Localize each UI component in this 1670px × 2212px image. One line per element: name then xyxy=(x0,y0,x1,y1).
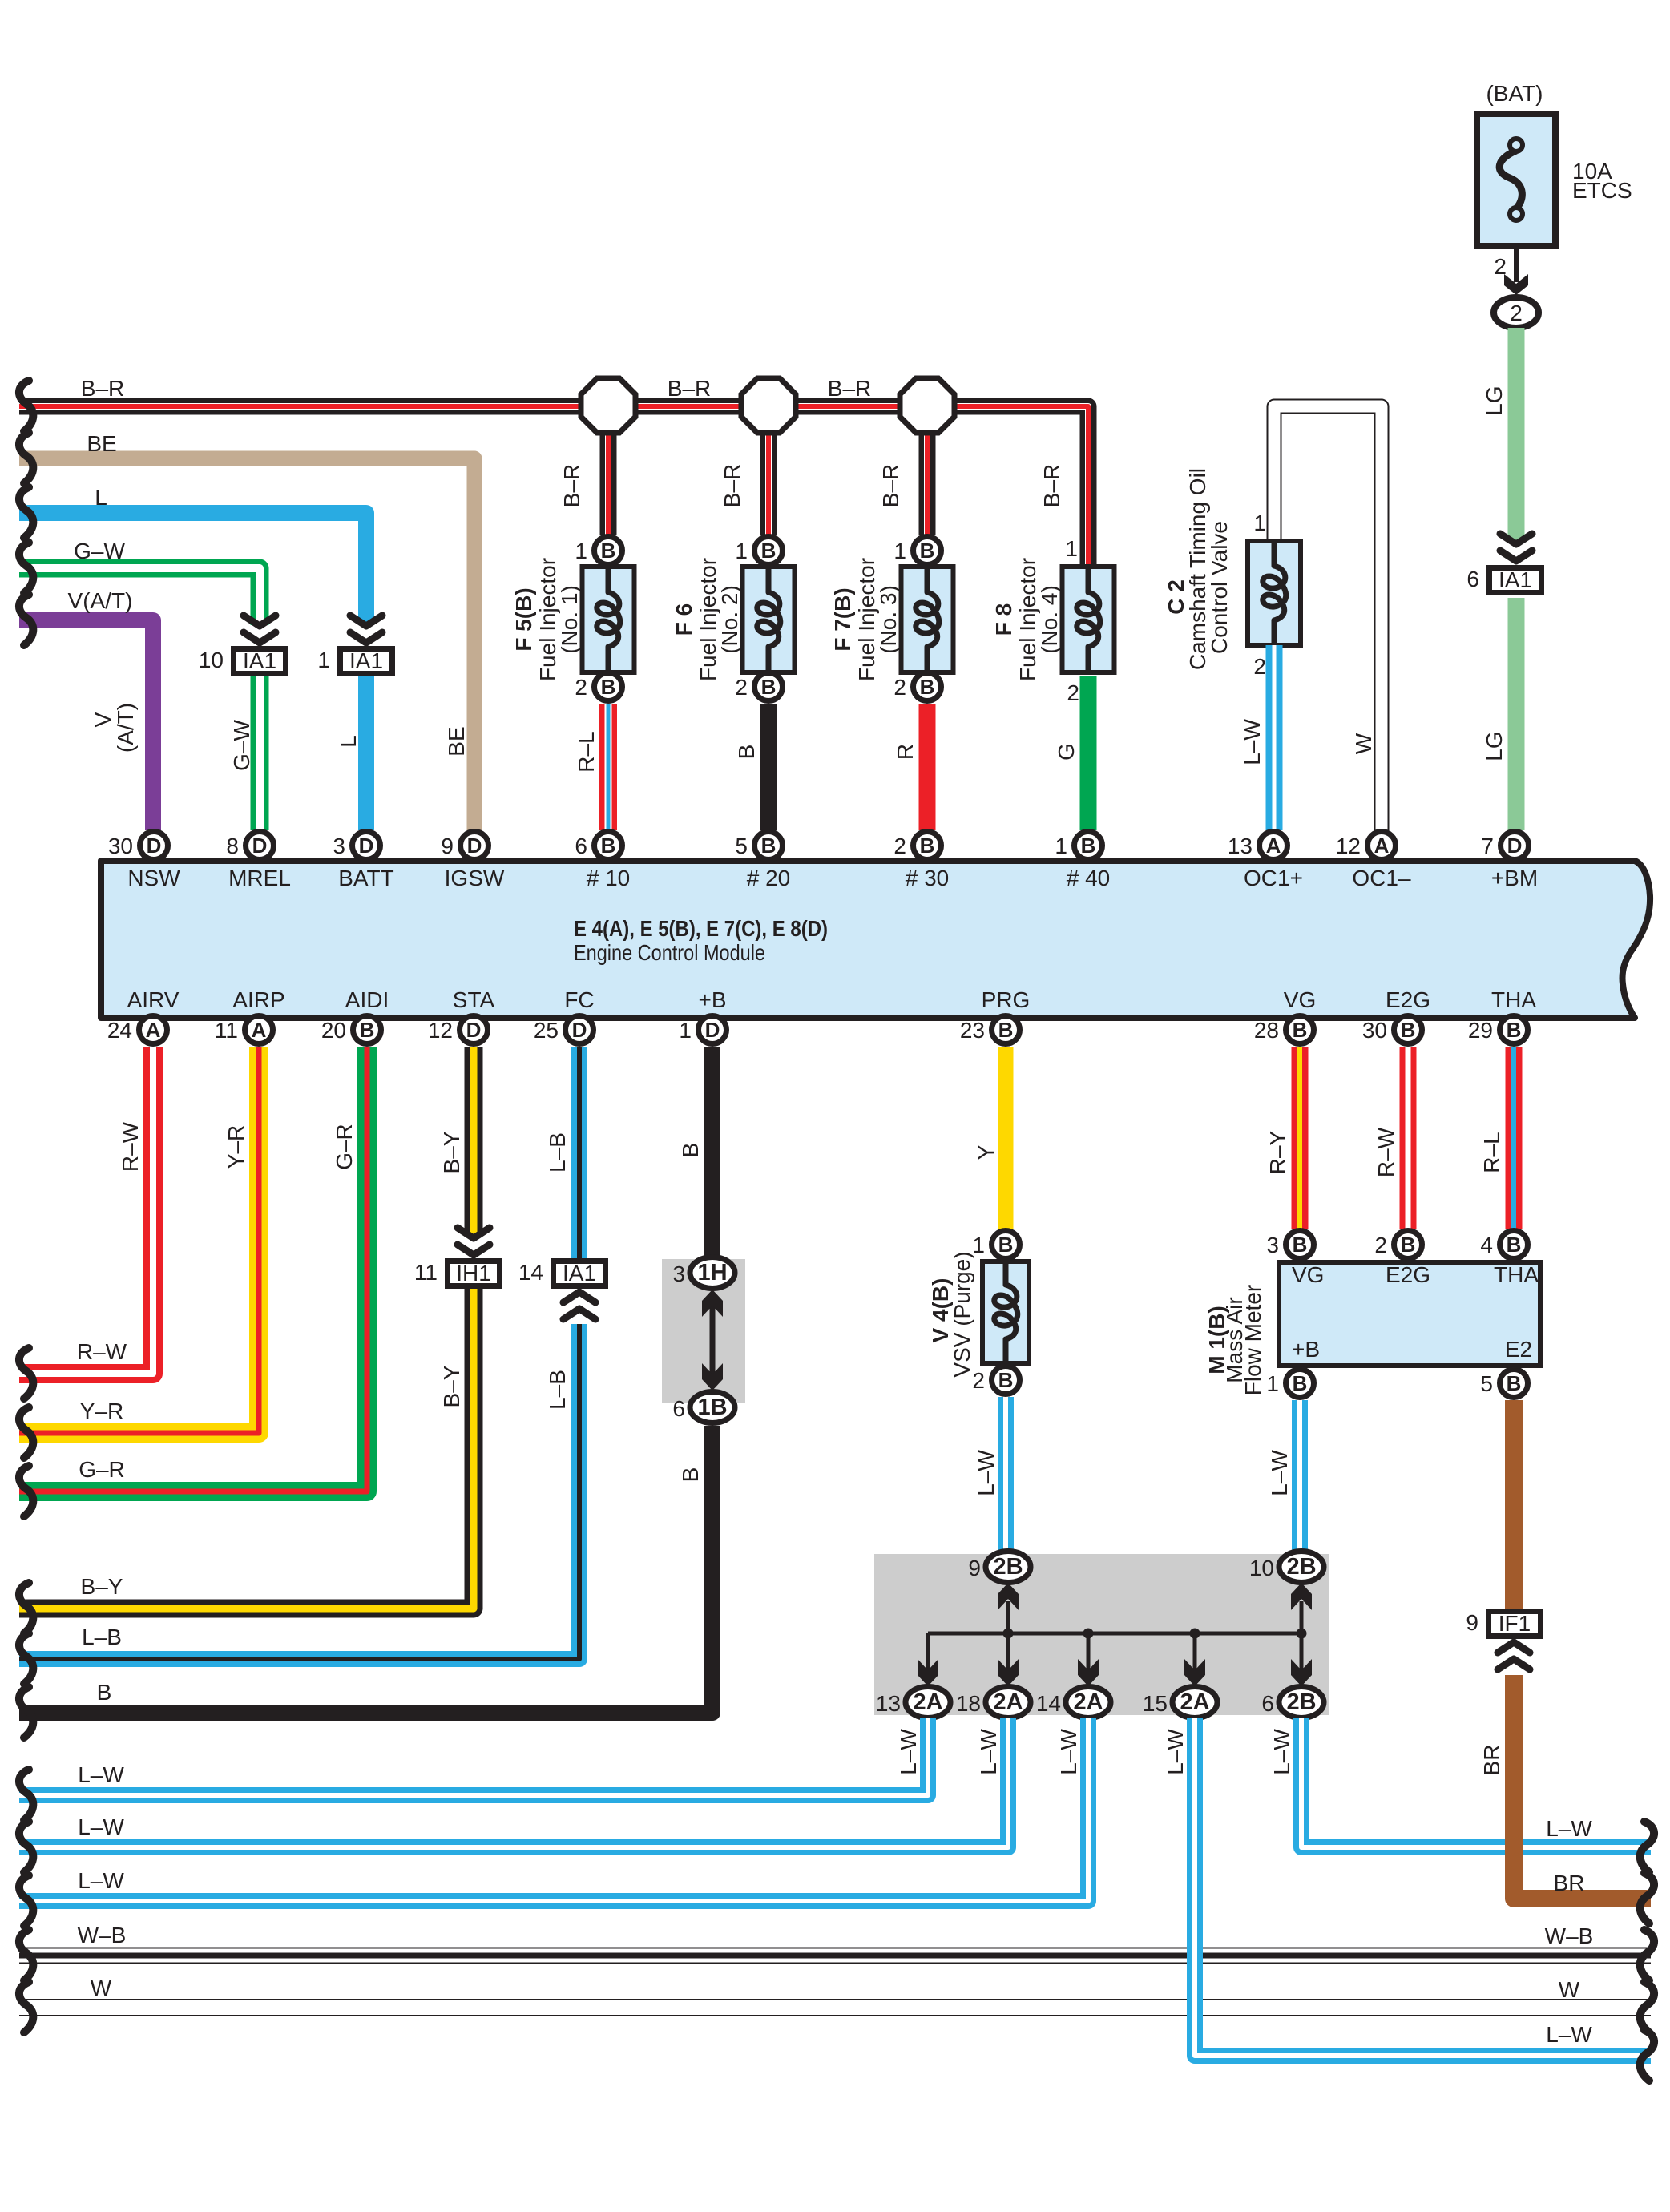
squiggle R-W left xyxy=(19,1348,33,1399)
wire LG from fuse to +BM xyxy=(1482,328,1516,830)
svg-text:F 7(B): F 7(B) xyxy=(830,587,855,651)
svg-text:A: A xyxy=(146,1018,161,1042)
svg-text:B: B xyxy=(920,834,935,858)
svg-text:7: 7 xyxy=(1481,834,1494,858)
svg-text:B: B xyxy=(998,1368,1014,1392)
wire B-Y STA to left xyxy=(19,1047,474,1609)
svg-text:D: D xyxy=(252,834,268,858)
svg-text:B: B xyxy=(761,539,777,563)
svg-text:15: 15 xyxy=(1143,1691,1168,1716)
svg-text:B: B xyxy=(678,1467,703,1483)
svg-text:V: V xyxy=(91,712,115,727)
squiggle G-W left xyxy=(19,543,33,593)
pin 3 B MAF xyxy=(1266,1231,1313,1259)
svg-text:R–W: R–W xyxy=(77,1339,127,1364)
svg-text:NSW: NSW xyxy=(127,866,180,890)
ECM pin 7 D +BM xyxy=(1481,832,1528,860)
ECM pin 12 D STA xyxy=(428,1016,488,1044)
svg-text:1H: 1H xyxy=(697,1260,727,1286)
ECM pin 9 D IGSW xyxy=(441,832,488,860)
svg-text:2B: 2B xyxy=(1286,1554,1316,1580)
connector oval 14 2A xyxy=(1036,1687,1111,1718)
svg-text:R: R xyxy=(893,744,918,760)
svg-text:G–W: G–W xyxy=(74,539,125,563)
pin 2 B MAF xyxy=(1374,1231,1422,1259)
squiggle L-W bottom right xyxy=(1640,2030,1654,2081)
squiggle B-Y left xyxy=(19,1583,33,1633)
arrow chevron up below 14 IA1 xyxy=(563,1292,595,1319)
squiggle L-W right xyxy=(1640,1822,1654,1872)
svg-text:2: 2 xyxy=(575,675,587,700)
svg-text:BE: BE xyxy=(444,726,469,756)
svg-text:6: 6 xyxy=(1466,567,1479,591)
svg-text:D: D xyxy=(147,834,162,858)
svg-text:Y–R: Y–R xyxy=(80,1399,123,1423)
wire L-W MAF +B to 2B xyxy=(1267,1400,1300,1552)
ECM pin 3 D BATT xyxy=(333,832,380,860)
svg-text:12: 12 xyxy=(1336,834,1361,858)
svg-text:(No. 1): (No. 1) xyxy=(557,585,582,654)
svg-text:R–L: R–L xyxy=(1479,1132,1504,1173)
svg-text:3: 3 xyxy=(1266,1233,1279,1257)
svg-text:L–W: L–W xyxy=(1546,1816,1592,1841)
svg-text:2: 2 xyxy=(1374,1233,1387,1257)
svg-text:W–B: W–B xyxy=(78,1923,127,1948)
svg-text:1: 1 xyxy=(893,539,906,563)
svg-text:2: 2 xyxy=(1253,654,1266,679)
svg-text:B: B xyxy=(1507,1371,1522,1395)
ECM pin 20 B AIDI xyxy=(321,1016,381,1044)
svg-text:9: 9 xyxy=(441,834,454,858)
svg-text:E 4(A), E 5(B), E 7(C), E 8(D): E 4(A), E 5(B), E 7(C), E 8(D) xyxy=(574,916,828,941)
wire B-R drop to injector 1 xyxy=(559,420,608,535)
svg-text:L–W: L–W xyxy=(1269,1729,1294,1775)
connector oval 6 1B xyxy=(672,1392,735,1423)
svg-text:8: 8 xyxy=(226,834,239,858)
wire BR MAF E2 to right xyxy=(1479,1400,1651,1899)
svg-text:3: 3 xyxy=(333,834,345,858)
squiggle W-B left xyxy=(19,1930,33,1980)
ECM pin 12 A OC1- xyxy=(1336,832,1396,860)
svg-text:2: 2 xyxy=(1067,680,1079,705)
svg-text:L–W: L–W xyxy=(974,1450,998,1496)
ECM pin 28 B VG xyxy=(1254,1016,1314,1044)
wire G-W xyxy=(19,539,260,830)
svg-text:B: B xyxy=(1293,1371,1308,1395)
svg-text:R–L: R–L xyxy=(574,731,599,772)
ECM pin 1 B #40 xyxy=(1055,832,1102,860)
wire L xyxy=(19,485,366,830)
junction arrow up into 10 2B xyxy=(1291,1583,1312,1610)
connector 9 IF1 xyxy=(1466,1610,1540,1637)
svg-text:2: 2 xyxy=(735,675,748,700)
svg-text:6: 6 xyxy=(1261,1691,1274,1716)
svg-text:4: 4 xyxy=(1480,1233,1493,1257)
svg-text:30: 30 xyxy=(108,834,133,858)
squiggle B left xyxy=(19,1687,33,1738)
wire B +B to left xyxy=(19,1047,712,1713)
svg-text:B–R: B–R xyxy=(81,376,124,401)
svg-text:R–Y: R–Y xyxy=(1265,1130,1290,1174)
svg-text:AIDI: AIDI xyxy=(345,987,389,1012)
svg-text:(BAT): (BAT) xyxy=(1486,81,1543,106)
svg-text:B: B xyxy=(601,539,616,563)
wire W bus xyxy=(19,1976,1651,2008)
svg-text:IA1: IA1 xyxy=(563,1261,596,1286)
svg-text:F 5(B): F 5(B) xyxy=(511,587,536,651)
svg-text:D: D xyxy=(572,1018,587,1042)
svg-text:2: 2 xyxy=(893,834,906,858)
svg-text:2A: 2A xyxy=(1073,1689,1103,1715)
pin 1 B MAF xyxy=(1266,1370,1313,1398)
squiggle V left xyxy=(19,595,33,645)
svg-text:B: B xyxy=(1507,1233,1522,1257)
svg-text:G–R: G–R xyxy=(332,1124,357,1170)
svg-text:IA1: IA1 xyxy=(1499,567,1532,592)
connector 10 IA1 xyxy=(199,648,286,674)
svg-text:B: B xyxy=(920,675,935,699)
connector oval 13 2A xyxy=(876,1687,950,1718)
svg-text:(No. 4): (No. 4) xyxy=(1037,585,1062,654)
svg-text:29: 29 xyxy=(1468,1018,1493,1043)
ECM pin 2 B #30 xyxy=(893,832,941,860)
svg-text:L–W: L–W xyxy=(1056,1729,1081,1775)
svg-text:Y–R: Y–R xyxy=(224,1125,248,1169)
ECM pin 23 B PRG xyxy=(960,1016,1020,1044)
pin 2 B injector 1 xyxy=(575,673,622,701)
svg-text:L–W: L–W xyxy=(1240,719,1265,765)
svg-text:W: W xyxy=(91,1976,112,2000)
svg-text:L–B: L–B xyxy=(82,1625,122,1649)
shield grey junction box xyxy=(874,1554,1329,1715)
svg-text:G–R: G–R xyxy=(79,1457,125,1482)
wire R injector 3 to ECM xyxy=(893,704,927,830)
svg-text:Engine Control Module: Engine Control Module xyxy=(574,940,765,965)
svg-text:B–R: B–R xyxy=(878,464,903,507)
svg-text:6: 6 xyxy=(575,834,587,858)
svg-text:E2G: E2G xyxy=(1386,987,1430,1012)
svg-text:9: 9 xyxy=(968,1556,981,1580)
ECM pin 13 A OC1+ xyxy=(1228,832,1288,860)
wire L-B FC to left xyxy=(19,1047,579,1659)
svg-text:BR: BR xyxy=(1479,1745,1504,1776)
svg-text:MREL: MREL xyxy=(228,866,291,890)
svg-text:B: B xyxy=(1401,1018,1416,1042)
svg-text:28: 28 xyxy=(1254,1018,1279,1043)
wire G-R AIDI to left xyxy=(19,1047,367,1491)
svg-text:1: 1 xyxy=(1266,1371,1279,1396)
svg-text:1: 1 xyxy=(972,1233,985,1257)
wire W loop C2 pin 1 to OC1- xyxy=(1253,406,1382,830)
svg-text:L–W: L–W xyxy=(896,1729,921,1775)
fuel injector F 8 No.4 xyxy=(991,558,1115,681)
svg-text:L–B: L–B xyxy=(545,1132,570,1173)
wire L-W 18 2A to left xyxy=(19,1718,1008,1847)
connector oval 10 2B xyxy=(1249,1552,1324,1583)
pin 4 B MAF xyxy=(1480,1231,1527,1259)
svg-text:2A: 2A xyxy=(913,1689,942,1715)
ECM pin 25 D FC xyxy=(534,1016,594,1044)
svg-text:VG: VG xyxy=(1292,1262,1324,1287)
svg-text:25: 25 xyxy=(534,1018,559,1043)
junction bus line xyxy=(928,1601,1307,1672)
svg-text:(A/T): (A/T) xyxy=(113,703,138,753)
svg-text:VG: VG xyxy=(1284,987,1316,1012)
squiggle W left xyxy=(19,1982,33,2032)
svg-text:B: B xyxy=(761,834,777,858)
wire G injector 4 to ECM xyxy=(1054,676,1088,830)
svg-text:B–R: B–R xyxy=(1039,464,1064,507)
connector oval 9 2B xyxy=(968,1552,1031,1583)
wire Y PRG to VSV xyxy=(974,1047,1006,1229)
svg-text:L–B: L–B xyxy=(545,1370,570,1410)
svg-text:L–W: L–W xyxy=(976,1729,1001,1775)
wire L-W 14 2A to left xyxy=(19,1718,1088,1901)
svg-text:V(A/T): V(A/T) xyxy=(68,588,133,613)
arrow chevron into 11 IH1 xyxy=(458,1228,490,1255)
svg-text:L–W: L–W xyxy=(1163,1729,1188,1775)
svg-text:LG: LG xyxy=(1482,385,1507,415)
connector oval 18 2A xyxy=(956,1687,1031,1718)
arrow chevron into IA1 (LG) xyxy=(1500,534,1532,561)
connector 14 IA1 xyxy=(518,1260,606,1286)
svg-text:24: 24 xyxy=(107,1018,132,1043)
svg-text:ETCS: ETCS xyxy=(1572,178,1632,203)
squiggle L-W2 left xyxy=(19,1822,33,1872)
svg-text:# 20: # 20 xyxy=(747,866,791,890)
svg-text:1: 1 xyxy=(1065,536,1078,561)
svg-text:13: 13 xyxy=(876,1691,901,1716)
svg-text:R–W: R–W xyxy=(1374,1127,1398,1177)
squiggle L-B left xyxy=(19,1633,33,1684)
svg-text:B: B xyxy=(97,1680,112,1705)
svg-text:2: 2 xyxy=(972,1368,985,1393)
svg-text:THA: THA xyxy=(1494,1262,1539,1287)
wire B-R drop to injector 3 xyxy=(878,420,927,535)
svg-text:2B: 2B xyxy=(1286,1689,1316,1715)
svg-text:30: 30 xyxy=(1362,1018,1387,1043)
svg-text:B–R: B–R xyxy=(559,464,584,507)
svg-text:B: B xyxy=(601,834,616,858)
svg-text:OC1–: OC1– xyxy=(1352,866,1411,890)
junction arrow down into 15 2A xyxy=(1184,1659,1205,1686)
svg-text:14: 14 xyxy=(1036,1691,1061,1716)
wire L-W VSV to 2B xyxy=(974,1397,1006,1552)
arrow chevron into 10 IA1 xyxy=(244,616,276,643)
VSV purge valve V 4(B) xyxy=(928,1251,1029,1377)
connector oval 3 1H xyxy=(672,1257,735,1289)
fuse 10A ETCS (BAT) xyxy=(1477,81,1632,246)
svg-text:L: L xyxy=(336,735,361,748)
connector oval 6 2B xyxy=(1261,1687,1324,1718)
svg-text:G–W: G–W xyxy=(229,720,254,771)
wire L-W 13 2A to left xyxy=(19,1718,928,1795)
svg-text:IA1: IA1 xyxy=(243,648,276,673)
pin 1 B injector 3 xyxy=(893,537,941,565)
svg-text:1: 1 xyxy=(735,539,748,563)
svg-text:BE: BE xyxy=(87,431,116,456)
wire L-W C2 pin 2 to OC1+ xyxy=(1240,645,1274,830)
ECM pin 29 B THA xyxy=(1468,1016,1528,1044)
svg-text:L–W: L–W xyxy=(1267,1450,1292,1496)
svg-text:D: D xyxy=(359,834,374,858)
svg-text:Flow Meter: Flow Meter xyxy=(1240,1285,1265,1395)
junction arrow down into 18 2A xyxy=(998,1659,1019,1686)
ECM pin 30 D NSW xyxy=(108,832,168,860)
connector oval 2 xyxy=(1494,297,1539,328)
squiggle B-R left xyxy=(19,381,33,431)
svg-text:A: A xyxy=(1266,834,1281,858)
svg-text:11: 11 xyxy=(215,1018,238,1043)
connector 1 IA1 xyxy=(317,648,392,674)
svg-text:STA: STA xyxy=(453,987,495,1012)
svg-text:B–R: B–R xyxy=(720,464,744,507)
svg-text:Y: Y xyxy=(974,1144,998,1160)
svg-text:11: 11 xyxy=(414,1260,438,1285)
squiggle L-W1 left xyxy=(19,1770,33,1820)
svg-text:A: A xyxy=(1374,834,1390,858)
svg-text:1: 1 xyxy=(317,648,330,672)
svg-text:12: 12 xyxy=(428,1018,453,1043)
svg-text:BATT: BATT xyxy=(338,866,393,890)
arrow chevron up below 9 IF1 xyxy=(1498,1642,1530,1669)
wire B-R drop to injector 2 xyxy=(720,420,768,535)
svg-text:B: B xyxy=(1507,1018,1522,1042)
squiggle G-R left xyxy=(19,1466,33,1516)
connector 11 IH1 xyxy=(414,1260,500,1286)
svg-text:D: D xyxy=(1507,834,1523,858)
fuel injector F 6 No.2 xyxy=(672,558,795,681)
svg-text:B: B xyxy=(761,675,777,699)
squiggle W-B right xyxy=(1640,1930,1654,1980)
wire R-L injector 1 to ECM xyxy=(574,704,608,830)
pin 1 B VSV xyxy=(972,1231,1019,1259)
squiggle L-W3 left xyxy=(19,1875,33,1926)
svg-text:B–Y: B–Y xyxy=(439,1365,464,1407)
wire Y-R AIRP to left xyxy=(19,1047,259,1433)
svg-text:13: 13 xyxy=(1228,834,1252,858)
svg-text:THA: THA xyxy=(1491,987,1536,1012)
junction arrow down into 14 2A xyxy=(1078,1659,1099,1686)
svg-text:1B: 1B xyxy=(697,1395,727,1420)
svg-text:VSV (Purge): VSV (Purge) xyxy=(950,1251,974,1377)
svg-text:+BM: +BM xyxy=(1491,866,1538,890)
svg-text:E2: E2 xyxy=(1505,1337,1532,1362)
svg-text:IA1: IA1 xyxy=(349,648,383,673)
svg-text:F 6: F 6 xyxy=(672,603,696,636)
ECM pin 30 B E2G xyxy=(1362,1016,1422,1044)
svg-text:IF1: IF1 xyxy=(1499,1611,1531,1636)
svg-text:(No. 2): (No. 2) xyxy=(717,585,742,654)
squiggle L left xyxy=(19,487,33,538)
svg-text:R–W: R–W xyxy=(118,1121,143,1172)
wire R-Y VG to MAF xyxy=(1265,1047,1300,1229)
svg-text:B: B xyxy=(1293,1018,1308,1042)
pin 2 B VSV xyxy=(972,1366,1019,1395)
svg-text:G: G xyxy=(1054,743,1079,761)
pin 5 B MAF xyxy=(1480,1370,1527,1398)
svg-text:2A: 2A xyxy=(1180,1689,1209,1715)
connector 6 IA1 xyxy=(1466,567,1541,593)
svg-text:D: D xyxy=(705,1018,720,1042)
pin 2 B injector 2 xyxy=(735,673,782,701)
svg-text:(No. 3): (No. 3) xyxy=(876,585,901,654)
svg-text:LG: LG xyxy=(1482,731,1507,761)
ECM pin 8 D MREL xyxy=(226,832,273,860)
wire B injector 2 to ECM xyxy=(734,704,768,830)
svg-text:+B: +B xyxy=(1292,1337,1320,1362)
squiggle BR right xyxy=(1640,1873,1654,1923)
svg-text:# 30: # 30 xyxy=(906,866,950,890)
svg-text:B: B xyxy=(678,1143,703,1158)
ECM pin 24 A AIRV xyxy=(107,1016,167,1044)
pin 2 B injector 3 xyxy=(893,673,941,701)
junction arrow up into 9 2B xyxy=(998,1583,1019,1610)
wire fuse pin 2 xyxy=(1494,249,1528,295)
svg-text:10: 10 xyxy=(199,648,224,672)
svg-text:OC1+: OC1+ xyxy=(1244,866,1303,890)
svg-text:B: B xyxy=(998,1233,1014,1257)
svg-text:B–R: B–R xyxy=(668,376,711,401)
camshaft timing oil control valve C 2 xyxy=(1164,468,1232,670)
svg-text:B: B xyxy=(734,745,759,760)
svg-text:IH1: IH1 xyxy=(456,1261,491,1286)
shield grey box 1H/1B xyxy=(662,1259,745,1403)
svg-text:1: 1 xyxy=(1253,511,1266,535)
squiggle Y-R left xyxy=(19,1407,33,1458)
svg-text:B: B xyxy=(998,1018,1014,1042)
svg-text:L–W: L–W xyxy=(78,1762,124,1787)
svg-text:B: B xyxy=(1293,1233,1308,1257)
svg-text:AIRV: AIRV xyxy=(127,987,180,1012)
svg-text:5: 5 xyxy=(1480,1371,1493,1396)
wire W-B bus xyxy=(19,1923,1651,1956)
C2 valve box xyxy=(1248,539,1301,648)
svg-text:3: 3 xyxy=(672,1261,685,1286)
svg-text:2: 2 xyxy=(893,675,906,700)
engine control module E4(A) E5(B) E7(C) E8(D) xyxy=(101,861,1650,1018)
wire BR crossing over L-W xyxy=(1505,1826,1523,1871)
svg-text:L–W: L–W xyxy=(78,1868,124,1893)
svg-text:B: B xyxy=(920,539,935,563)
svg-text:D: D xyxy=(466,1018,482,1042)
double arrow between 1H and 1B xyxy=(702,1290,723,1391)
connector oval 15 2A xyxy=(1143,1687,1217,1718)
svg-text:9: 9 xyxy=(1466,1610,1478,1635)
ECM pin 5 B #20 xyxy=(735,832,782,860)
squiggle W right xyxy=(1640,1982,1654,2032)
fuel injector F 5(B) No.1 xyxy=(511,558,635,681)
svg-text:FC: FC xyxy=(564,987,594,1012)
svg-text:B–R: B–R xyxy=(828,376,871,401)
ECM pin 1 D +B xyxy=(679,1016,726,1044)
svg-text:W: W xyxy=(1559,1977,1580,2002)
svg-text:6: 6 xyxy=(672,1396,685,1421)
squiggle BE left xyxy=(19,433,33,483)
svg-text:B–Y: B–Y xyxy=(81,1574,123,1599)
junction arrow down into 13 2A xyxy=(918,1659,938,1686)
ECM pin 6 B #10 xyxy=(575,832,622,860)
svg-text:Control Valve: Control Valve xyxy=(1207,521,1232,654)
svg-text:PRG: PRG xyxy=(982,987,1031,1012)
svg-text:IGSW: IGSW xyxy=(445,866,505,890)
svg-text:20: 20 xyxy=(321,1018,346,1043)
svg-text:2B: 2B xyxy=(993,1554,1023,1580)
svg-text:B: B xyxy=(1401,1233,1416,1257)
svg-text:1: 1 xyxy=(1055,834,1067,858)
pin 1 B injector 2 xyxy=(735,537,782,565)
svg-text:18: 18 xyxy=(956,1691,981,1716)
